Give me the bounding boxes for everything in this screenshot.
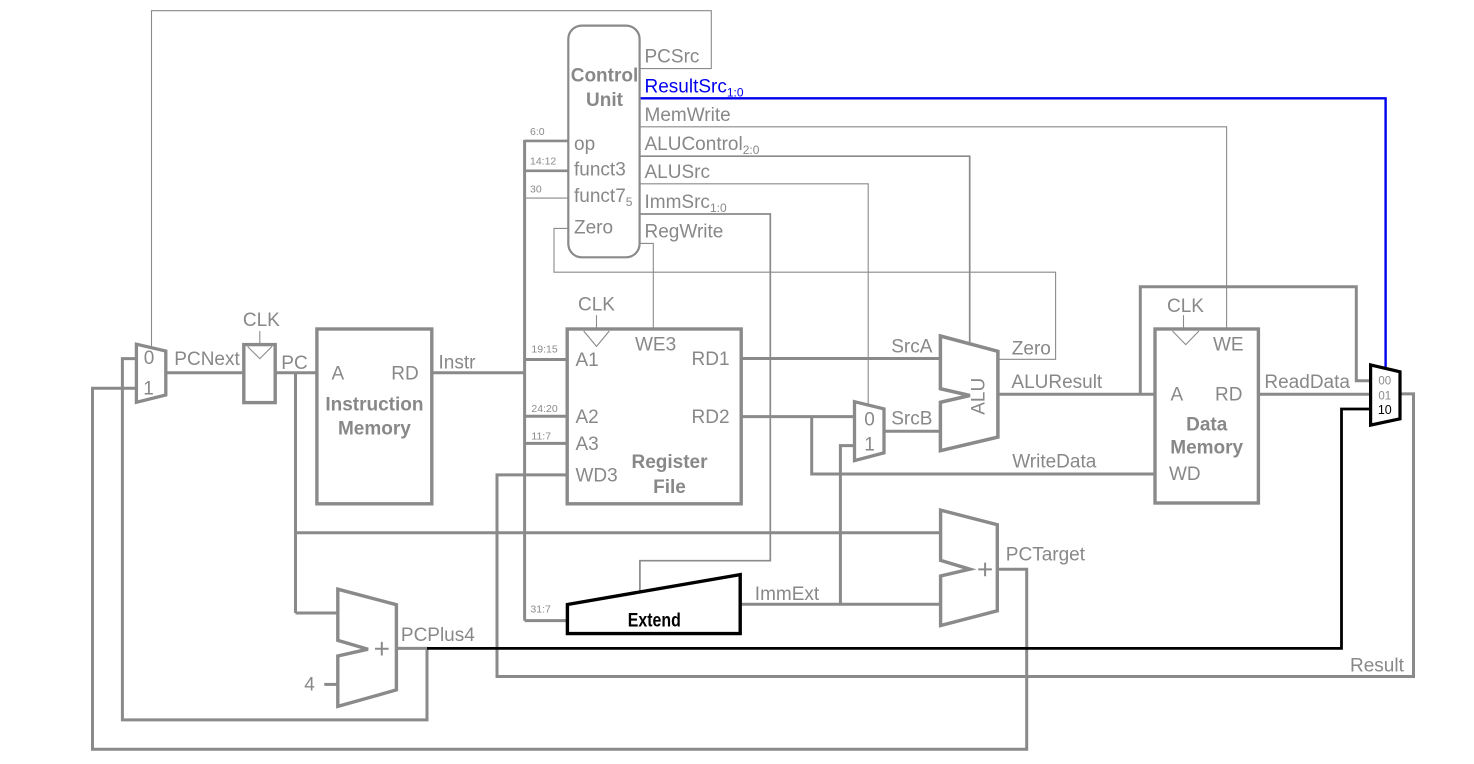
wire WriteData xyxy=(812,417,1155,474)
wire ALUResult loop over data memory to mux 00 xyxy=(1140,287,1370,395)
svg-text:MemWrite: MemWrite xyxy=(645,105,731,126)
mux PC (0/1) xyxy=(136,344,165,402)
svg-text:CLK: CLK xyxy=(243,310,280,331)
svg-text:op: op xyxy=(574,134,595,155)
svg-text:ALUSrc: ALUSrc xyxy=(645,162,710,183)
svg-text:10: 10 xyxy=(1378,403,1392,417)
svg-text:1: 1 xyxy=(864,435,875,456)
svg-text:CLK: CLK xyxy=(578,294,615,315)
svg-text:funct75: funct75 xyxy=(574,186,633,209)
svg-text:SrcB: SrcB xyxy=(891,409,932,430)
svg-text:Instr: Instr xyxy=(439,353,477,374)
wire ReadData xyxy=(1258,393,1370,396)
svg-text:Control: Control xyxy=(571,66,639,87)
svg-text:Extend: Extend xyxy=(628,611,681,632)
CLK stub register file xyxy=(596,315,598,329)
wire PC to PCTarget adder xyxy=(296,531,941,534)
svg-text:RD: RD xyxy=(1215,385,1242,406)
control unit U1 xyxy=(568,26,639,258)
wire ImmSrc xyxy=(640,214,770,592)
svg-text:1: 1 xyxy=(143,378,154,399)
svg-text:PC: PC xyxy=(281,353,307,374)
svg-text:ALUControl2:0: ALUControl2:0 xyxy=(645,134,760,157)
wire A1 tap xyxy=(525,358,568,361)
svg-text:SrcA: SrcA xyxy=(891,337,933,358)
svg-text:A1: A1 xyxy=(576,350,599,371)
svg-text:PCTarget: PCTarget xyxy=(1006,544,1086,565)
wire PCSrc xyxy=(152,11,712,347)
label + (PCTarget adder) xyxy=(978,563,992,577)
wire funct3 tap xyxy=(525,170,569,173)
svg-text:Zero: Zero xyxy=(574,218,613,239)
wire ImmExt tap to SrcB mux 1 xyxy=(840,446,854,605)
wire Result xyxy=(497,394,1414,677)
label + (PCPlus4 adder) xyxy=(375,642,389,656)
svg-text:WriteData: WriteData xyxy=(1012,452,1097,473)
svg-text:RD1: RD1 xyxy=(692,349,730,370)
wire ALUResult xyxy=(998,393,1155,396)
wire 4 input xyxy=(324,683,338,686)
wire PC xyxy=(275,371,317,374)
wire A3 tap xyxy=(525,442,568,445)
svg-text:A: A xyxy=(332,363,345,384)
svg-text:4: 4 xyxy=(304,674,315,695)
mux Result (00/01/10, black) xyxy=(1371,365,1400,425)
wire Instr bus vertical xyxy=(523,140,526,621)
instruction memory xyxy=(317,329,432,504)
svg-text:RegWrite: RegWrite xyxy=(645,221,724,242)
svg-text:CLK: CLK xyxy=(1167,296,1204,317)
svg-text:6:0: 6:0 xyxy=(530,126,545,138)
wire ALUControl xyxy=(641,156,970,343)
mux SrcB (0/1) xyxy=(855,402,885,461)
wire Zero (ALU to Control Unit) xyxy=(554,228,1056,359)
svg-text:19:15: 19:15 xyxy=(531,344,557,356)
svg-text:File: File xyxy=(653,477,686,498)
CLK stub data memory xyxy=(1183,315,1185,329)
svg-text:Instruction: Instruction xyxy=(325,394,423,415)
svg-text:RD: RD xyxy=(391,363,418,384)
wire RD2 xyxy=(741,415,854,418)
clock wedge register file xyxy=(584,331,610,346)
wire funct7 tap xyxy=(525,197,569,199)
wire PCPlus4 gray stub and loop to PC mux 0 xyxy=(122,359,427,720)
svg-text:A: A xyxy=(1171,385,1184,406)
svg-text:24:20: 24:20 xyxy=(531,403,557,415)
svg-text:01: 01 xyxy=(1378,391,1391,403)
extend block xyxy=(567,575,740,634)
svg-text:31:7: 31:7 xyxy=(530,603,551,615)
wire PC tap down xyxy=(294,373,297,613)
svg-text:Unit: Unit xyxy=(586,90,624,111)
adder PCTarget xyxy=(941,510,998,625)
svg-text:PCSrc: PCSrc xyxy=(645,47,700,68)
pc register xyxy=(244,345,275,403)
svg-text:Result: Result xyxy=(1350,656,1405,677)
wire RD1 to SrcA xyxy=(741,357,940,360)
svg-text:funct3: funct3 xyxy=(574,160,626,181)
svg-text:WE3: WE3 xyxy=(635,334,676,355)
svg-text:Memory: Memory xyxy=(1170,437,1243,458)
svg-text:0: 0 xyxy=(144,348,155,369)
svg-text:PCNext: PCNext xyxy=(174,349,240,370)
svg-text:11:7: 11:7 xyxy=(531,431,551,443)
svg-text:0: 0 xyxy=(864,410,875,431)
svg-text:RD2: RD2 xyxy=(692,407,730,428)
svg-text:WD: WD xyxy=(1169,464,1201,485)
wire ALUSrc xyxy=(641,184,869,405)
wire A2 tap xyxy=(525,415,568,418)
wire 31:7 tap to Extend xyxy=(525,619,568,622)
svg-text:WE: WE xyxy=(1213,334,1244,355)
wire Instr xyxy=(432,371,525,374)
clock wedge data memory xyxy=(1173,331,1200,345)
svg-text:A2: A2 xyxy=(576,407,599,428)
wire SrcB xyxy=(884,430,940,433)
adder PCPlus4 xyxy=(338,589,397,706)
svg-text:PCPlus4: PCPlus4 xyxy=(401,625,475,646)
svg-text:14:12: 14:12 xyxy=(530,155,556,167)
wire ImmExt xyxy=(740,603,940,606)
svg-text:ImmExt: ImmExt xyxy=(755,584,820,605)
data memory xyxy=(1155,329,1258,503)
wire MemWrite xyxy=(641,127,1227,329)
register file xyxy=(567,329,741,504)
svg-text:00: 00 xyxy=(1378,376,1391,388)
wire PCNext xyxy=(166,371,244,374)
svg-text:Zero: Zero xyxy=(1012,338,1051,359)
svg-text:ALU: ALU xyxy=(968,378,989,415)
svg-text:Register: Register xyxy=(631,452,708,473)
wire PCPlus4 black to result mux 10 xyxy=(427,409,1370,648)
svg-text:ReadData: ReadData xyxy=(1264,372,1350,393)
svg-text:Memory: Memory xyxy=(338,419,411,440)
wire ResultSrc (blue) xyxy=(641,98,1386,368)
wire PCTarget xyxy=(93,388,1027,749)
svg-text:ALUResult: ALUResult xyxy=(1011,372,1103,393)
wire op tap xyxy=(525,140,569,143)
svg-text:Data: Data xyxy=(1186,414,1228,435)
svg-text:30: 30 xyxy=(530,184,542,196)
svg-text:WD3: WD3 xyxy=(576,465,618,486)
svg-text:A3: A3 xyxy=(576,434,599,455)
wire PC to PCPlus4 adder xyxy=(296,612,338,615)
wire RegWrite xyxy=(641,243,654,329)
clock wedge PC xyxy=(248,347,272,359)
alu xyxy=(940,336,998,451)
CLK stub PC xyxy=(259,331,261,345)
